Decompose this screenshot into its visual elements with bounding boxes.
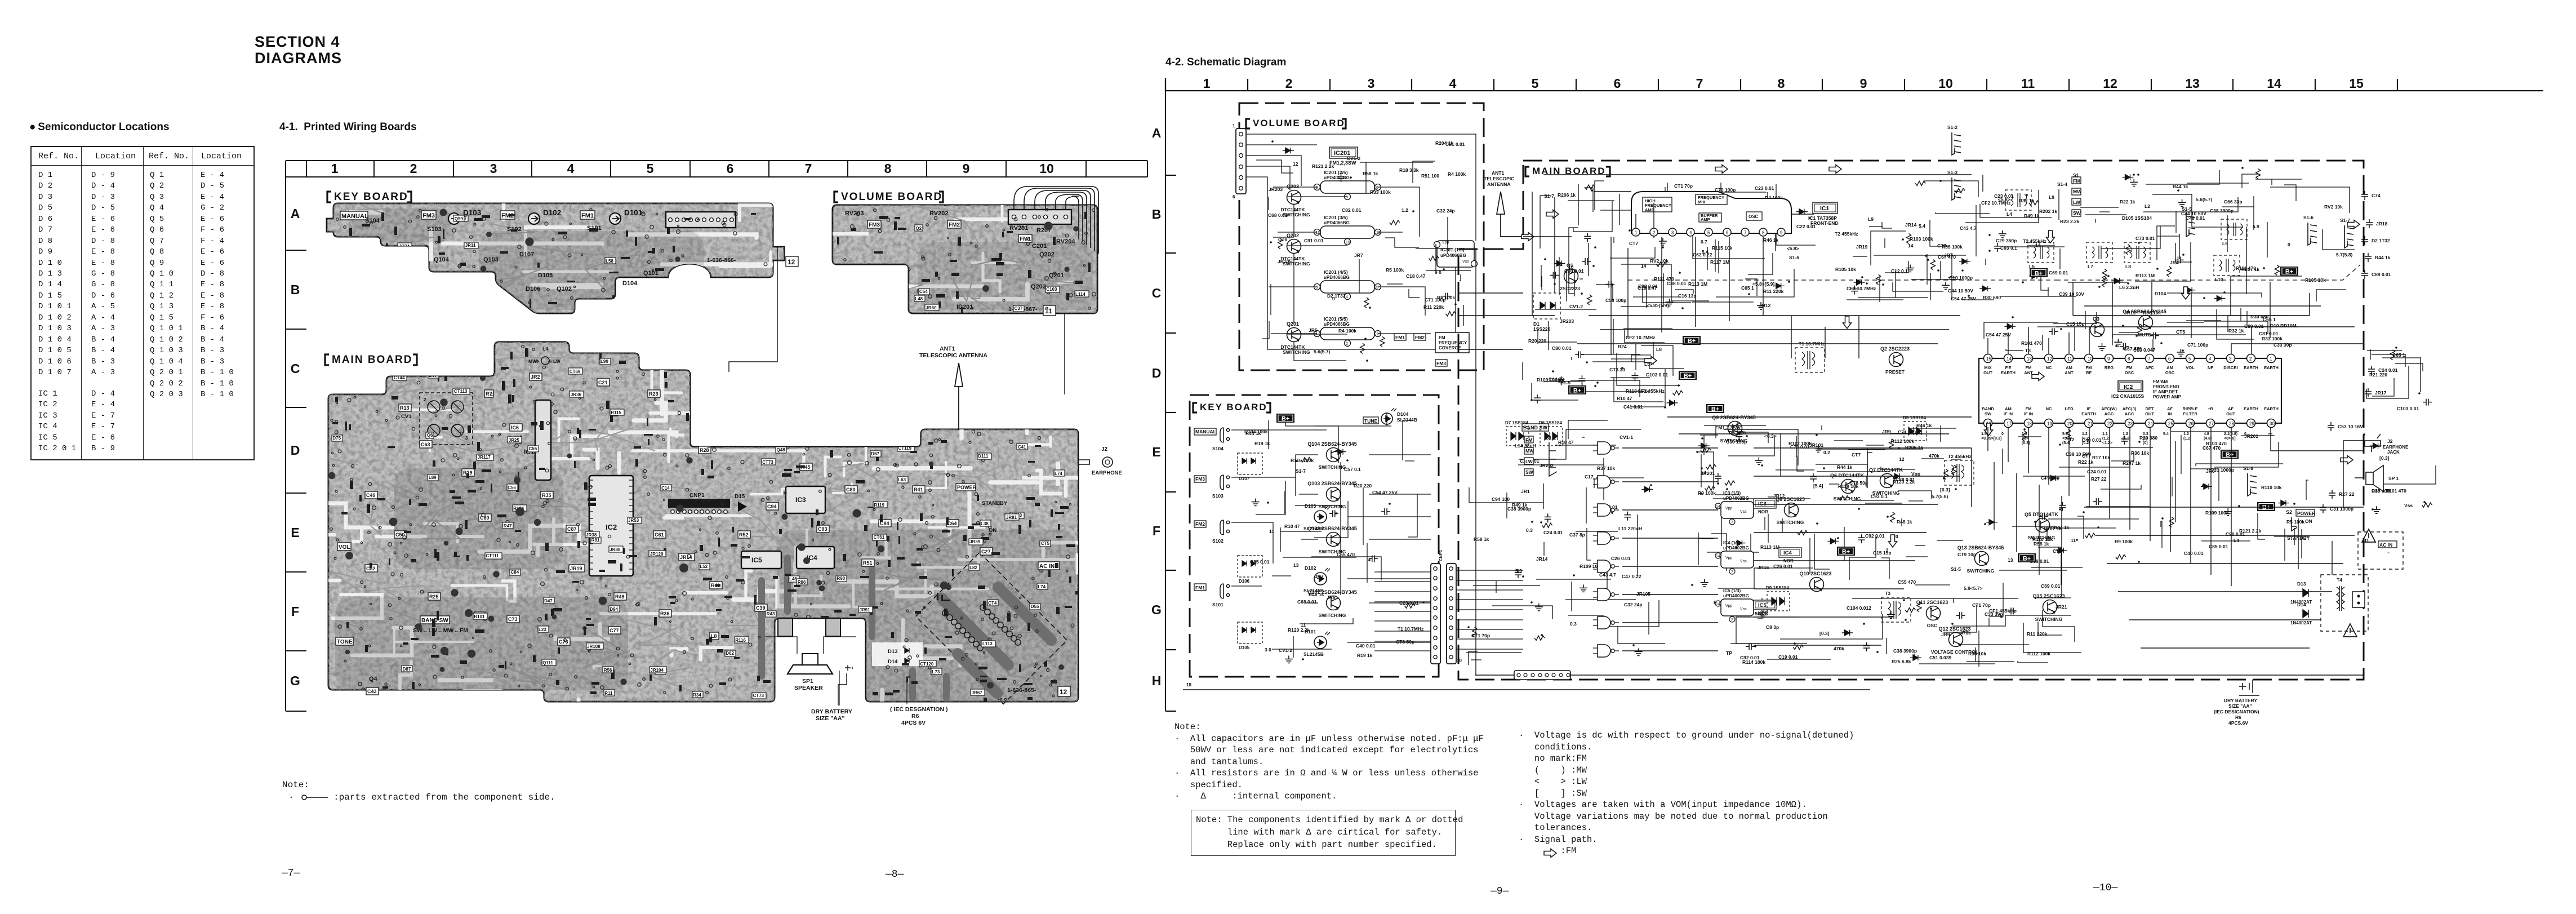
via [865, 462, 869, 465]
svg-text:D103: D103 [1305, 503, 1316, 509]
component [619, 549, 625, 552]
svg-text:C53 10 16V: C53 10 16V [2338, 424, 2363, 429]
component [610, 415, 618, 416]
svg-text:C38 3900p: C38 3900p [2210, 208, 2234, 214]
svg-text:<0.35>[0.3]: <0.35>[0.3] [1981, 437, 2001, 441]
component [805, 656, 808, 664]
component [1380, 336, 1385, 347]
via [372, 506, 376, 510]
via [583, 381, 586, 384]
wire [1796, 436, 1797, 457]
via [515, 266, 517, 268]
svg-text:CT111: CT111 [486, 553, 499, 558]
via [551, 393, 554, 396]
component [385, 280, 388, 289]
svg-text:SWITCHING: SWITCHING [1319, 464, 1346, 470]
component [991, 552, 1000, 555]
svg-text:FM: FM [2086, 365, 2092, 370]
svg-text:14: 14 [1908, 243, 1914, 249]
component [679, 685, 682, 691]
via [579, 398, 581, 400]
wire [1817, 449, 1923, 450]
component [1725, 481, 1735, 485]
wire [1403, 420, 1413, 460]
wire [1758, 598, 1762, 619]
svg-text:B+: B+ [1842, 549, 1850, 556]
wire [1617, 353, 1680, 385]
trace [959, 353, 1028, 367]
via [742, 547, 744, 549]
wire [1764, 517, 1765, 530]
via [676, 465, 678, 467]
svg-text:S103: S103 [1212, 493, 1224, 499]
trace [466, 298, 554, 318]
svg-text:C67 470: C67 470 [2203, 445, 2221, 451]
wire channel [594, 666, 600, 668]
via [364, 585, 366, 587]
via [916, 655, 919, 657]
via [1092, 209, 1095, 212]
svg-text:0: 0 [2244, 432, 2246, 436]
component [941, 595, 943, 601]
via [769, 480, 772, 483]
component [520, 436, 522, 442]
via [981, 618, 984, 621]
svg-text:C69 0.01: C69 0.01 [2049, 270, 2068, 276]
wire [1582, 437, 1585, 438]
wire [2119, 332, 2138, 333]
wire channel [290, 503, 393, 527]
svg-text:C92 0.01: C92 0.01 [1865, 533, 1885, 539]
label R25 [428, 593, 441, 600]
label R35 [541, 491, 553, 499]
wire channel [389, 296, 431, 326]
wire [1692, 301, 1754, 303]
via [988, 525, 991, 529]
svg-text:AFC(J): AFC(J) [2123, 406, 2137, 411]
svg-text:R109 100k: R109 100k [2205, 510, 2229, 516]
via [644, 476, 647, 479]
label [803, 681, 817, 687]
svg-text:0.3: 0.3 [2143, 432, 2148, 436]
wire channel [929, 520, 984, 527]
label [873, 502, 887, 508]
via [1066, 555, 1070, 558]
svg-text:R116: R116 [735, 638, 746, 643]
label C73 [507, 615, 519, 623]
svg-text:R58 1k: R58 1k [1363, 171, 1378, 176]
via [926, 522, 928, 525]
via [504, 674, 508, 677]
via [989, 533, 991, 535]
svg-text:EARTH: EARTH [2244, 365, 2258, 370]
wire [1736, 617, 1799, 644]
svg-text:13: 13 [1293, 562, 1299, 568]
svg-text:5.9<5.7>: 5.9<5.7> [1964, 585, 1983, 591]
wire [1667, 183, 1668, 208]
via [988, 638, 991, 641]
component [1026, 497, 1035, 500]
wire [1607, 562, 1608, 592]
svg-text:R105 10k: R105 10k [2305, 277, 2326, 283]
component [1545, 513, 1551, 522]
component [358, 237, 361, 242]
component [590, 691, 597, 694]
svg-text:24: 24 [2148, 421, 2153, 427]
svg-text:SWITCHING: SWITCHING [1834, 496, 1861, 502]
svg-text:13: 13 [2185, 76, 2200, 91]
svg-text:2: 2 [410, 161, 417, 176]
wire [1571, 357, 1572, 360]
component [635, 459, 638, 467]
svg-text:JR203: JR203 [1269, 187, 1283, 192]
svg-text:JR81: JR81 [988, 361, 999, 366]
cap [440, 398, 447, 406]
trace [315, 364, 361, 402]
via [548, 442, 551, 445]
component [1814, 445, 1822, 452]
component [332, 422, 338, 424]
via [391, 573, 394, 576]
component [942, 600, 950, 601]
svg-text:JR7: JR7 [1354, 252, 1363, 258]
label C27 [980, 548, 993, 555]
label [925, 304, 939, 310]
via [376, 410, 378, 412]
component [794, 471, 800, 473]
svg-text:R44 1k: R44 1k [2173, 184, 2188, 189]
svg-text:JR11: JR11 [465, 243, 476, 248]
svg-text:20: 20 [2067, 421, 2072, 427]
component [1554, 260, 1565, 266]
svg-text:D105: D105 [538, 272, 553, 279]
svg-text:OSC: OSC [1749, 214, 1759, 219]
wire channel [724, 349, 849, 353]
component [779, 529, 782, 534]
via [593, 459, 594, 460]
svg-text:C27: C27 [981, 549, 991, 554]
via [1022, 227, 1024, 229]
component [1053, 237, 1056, 245]
svg-text:Vpp: Vpp [1725, 556, 1733, 560]
trace [953, 281, 972, 301]
via [497, 538, 500, 542]
svg-text:R115: R115 [611, 410, 621, 415]
via [433, 675, 437, 678]
svg-text:D102: D102 [1305, 565, 1316, 571]
wire [1817, 471, 1888, 472]
svg-text:R25: R25 [429, 594, 439, 600]
svg-text:1.5: 1.5 [2022, 432, 2027, 436]
label [609, 546, 623, 552]
cap [816, 580, 822, 585]
svg-text:Q201: Q201 [1049, 272, 1064, 279]
wire [1611, 359, 1684, 369]
component [1905, 608, 1915, 613]
svg-text:11: 11 [1301, 622, 1306, 628]
component [691, 369, 693, 376]
component [782, 473, 791, 477]
label [544, 597, 554, 604]
via [935, 439, 938, 442]
wire [1887, 548, 1888, 552]
via [926, 224, 928, 226]
via [971, 409, 975, 412]
trace [482, 511, 530, 530]
component [466, 555, 469, 561]
via [828, 473, 831, 477]
svg-text:CT9 10p: CT9 10p [2041, 475, 2059, 481]
component [915, 611, 921, 614]
svg-text:VOLUME BOARD: VOLUME BOARD [1253, 118, 1345, 128]
svg-text:R23: R23 [649, 391, 659, 397]
svg-text:5.6(5.7): 5.6(5.7) [2196, 197, 2212, 202]
wire channel [784, 690, 882, 716]
component [937, 593, 938, 600]
via [566, 687, 569, 690]
via [652, 269, 654, 271]
svg-text:C37 8p: C37 8p [1569, 532, 1585, 538]
svg-text:2: 2 [1346, 342, 1348, 346]
component [1075, 281, 1083, 284]
wire [1613, 319, 1614, 354]
cap [515, 507, 524, 516]
component [936, 294, 945, 298]
component [346, 622, 349, 628]
svg-text:14: 14 [2267, 76, 2281, 91]
wire channel [534, 544, 595, 556]
svg-text:SPEAKER: SPEAKER [794, 685, 823, 691]
via [1026, 238, 1028, 240]
svg-text:B+: B+ [2023, 556, 2031, 562]
label [402, 665, 412, 672]
component [1055, 563, 1058, 568]
svg-text:R101: R101 [474, 614, 485, 619]
via [695, 551, 697, 553]
via [416, 496, 419, 499]
svg-text:ANT1: ANT1 [940, 345, 955, 352]
component [963, 535, 967, 541]
component [442, 427, 448, 430]
component [1632, 219, 1641, 225]
svg-text:D101: D101 [624, 208, 643, 217]
component [1329, 510, 1338, 517]
wire channel [608, 432, 677, 436]
svg-text:R56: R56 [604, 668, 612, 673]
via [663, 277, 666, 279]
component [788, 589, 797, 592]
via [1040, 570, 1043, 573]
via [630, 654, 634, 657]
svg-text:5.9: 5.9 [2253, 224, 2259, 229]
trace [835, 463, 884, 484]
via [603, 277, 606, 279]
svg-text:R10 47: R10 47 [1284, 523, 1300, 529]
component [734, 657, 740, 659]
wire [1852, 598, 2018, 599]
svg-text:PRESET: PRESET [1885, 369, 1905, 375]
via [917, 289, 920, 292]
wire channel [924, 570, 927, 592]
svg-text:470k: 470k [1834, 646, 1844, 651]
component [889, 367, 892, 372]
component [501, 367, 506, 370]
cap [1073, 226, 1079, 232]
wire [1834, 440, 1863, 441]
wire [1314, 501, 1348, 538]
via [1083, 264, 1085, 266]
label C50 [394, 531, 407, 538]
via [921, 545, 924, 548]
wire [1718, 241, 1719, 273]
wire [1915, 584, 1950, 585]
trace [983, 356, 1029, 384]
wire [1621, 264, 1709, 301]
via [977, 513, 980, 516]
via [877, 562, 879, 565]
wire channel [346, 210, 381, 215]
svg-text:C21: C21 [598, 380, 608, 385]
svg-text:R113 1M: R113 1M [1760, 544, 1779, 550]
via [665, 487, 669, 491]
svg-text:R19 1k: R19 1k [1357, 653, 1373, 658]
wire [1426, 244, 1471, 270]
component [1659, 238, 1667, 245]
svg-text:MW: MW [2073, 189, 2082, 194]
component [584, 627, 586, 635]
via [1047, 291, 1050, 294]
via [937, 548, 940, 552]
via [588, 647, 591, 651]
wire [1915, 545, 1925, 546]
component [505, 661, 506, 669]
svg-text:D104: D104 [622, 280, 638, 287]
svg-text:R20 220: R20 220 [1528, 338, 1546, 344]
via [528, 644, 531, 647]
component [497, 514, 506, 517]
wire [1295, 505, 1342, 506]
component [951, 273, 959, 276]
component [1701, 448, 1711, 452]
via [368, 531, 371, 534]
via [969, 441, 971, 443]
via [533, 400, 536, 403]
wire [2038, 547, 2061, 585]
svg-text:C33 39p: C33 39p [1985, 611, 2003, 617]
component [455, 502, 464, 504]
svg-text:CT6: CT6 [1278, 237, 1287, 242]
component [1472, 627, 1477, 637]
svg-text:(IEC DESIGNATION): (IEC DESIGNATION) [2214, 709, 2259, 715]
via [859, 428, 863, 432]
via [336, 696, 340, 699]
wire [1866, 476, 1867, 487]
via [929, 454, 932, 456]
svg-text:DRY BATTERY: DRY BATTERY [811, 708, 852, 715]
wire channel [599, 612, 715, 615]
label [661, 485, 671, 491]
component [1360, 343, 1365, 353]
component [347, 299, 349, 307]
svg-text:CV1-2: CV1-2 [1279, 647, 1292, 653]
label [649, 551, 666, 557]
svg-text:C91 0.01: C91 0.01 [1304, 238, 1324, 243]
svg-text:J2: J2 [2387, 438, 2393, 444]
component [731, 544, 737, 547]
label C76 [558, 638, 570, 645]
via [847, 453, 850, 456]
component [586, 618, 591, 620]
component [453, 556, 460, 557]
label [586, 643, 603, 649]
svg-text:T3: T3 [1885, 591, 1890, 596]
svg-text:G: G [1151, 602, 1162, 617]
wire [1460, 274, 1461, 281]
svg-text:SWITCHING: SWITCHING [1720, 438, 1748, 443]
svg-text:MANUAL: MANUAL [1195, 429, 1216, 434]
component [1335, 449, 1346, 455]
trace [497, 245, 548, 286]
svg-text:18: 18 [2027, 421, 2032, 427]
via [880, 409, 884, 412]
trace [391, 226, 408, 263]
cap [686, 457, 692, 463]
wire [1866, 445, 1884, 446]
label [1030, 604, 1040, 610]
wire [1603, 458, 1604, 500]
svg-text:1.2: 1.2 [1402, 207, 1408, 213]
wire [1716, 269, 1794, 297]
svg-text:C55: C55 [529, 446, 537, 451]
svg-text:1.1: 1.1 [2102, 432, 2108, 436]
wire channel [650, 411, 693, 415]
via [335, 431, 338, 434]
component [389, 558, 390, 565]
label R7 [484, 390, 493, 397]
component [952, 569, 954, 576]
svg-text:R90: R90 [837, 576, 845, 581]
svg-text:JR39: JR39 [969, 539, 981, 544]
svg-text:R28: R28 [700, 447, 709, 453]
via [502, 423, 506, 427]
label [570, 391, 584, 397]
via [894, 464, 897, 467]
wire [1848, 449, 1885, 450]
component [577, 541, 580, 548]
via [670, 259, 673, 262]
svg-text:POWER: POWER [957, 485, 977, 490]
svg-text:(1.2): (1.2) [2102, 437, 2110, 441]
label [833, 631, 847, 637]
svg-text:JR96: JR96 [895, 285, 906, 290]
wire [1844, 527, 1845, 561]
svg-text:7: 7 [1731, 521, 1733, 525]
component [984, 698, 987, 707]
via [577, 523, 580, 526]
wire [1718, 568, 1813, 588]
cap [873, 268, 880, 275]
component [377, 498, 385, 500]
svg-text:AMP: AMP [1645, 207, 1654, 212]
via [385, 419, 388, 421]
via [1035, 663, 1038, 665]
via [929, 489, 932, 492]
svg-text:JR201: JR201 [1701, 471, 1715, 476]
label [766, 611, 776, 617]
cap [441, 647, 448, 655]
svg-text:MIX: MIX [1698, 199, 1705, 205]
svg-text:12: 12 [1899, 456, 1905, 462]
